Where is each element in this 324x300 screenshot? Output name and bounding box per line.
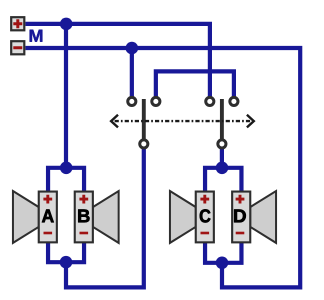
wire riser M- junction to S1 contact 1 bbox=[130, 48, 134, 97]
slide direction dash-dot double arrow bbox=[111, 115, 254, 128]
speaker A label A bbox=[42, 210, 54, 223]
switch S1 contact 1 bbox=[128, 97, 136, 105]
label M bbox=[30, 30, 43, 42]
node junction M+ top bbox=[60, 18, 73, 31]
node junction C/D bottom bbox=[216, 257, 229, 270]
wire M+ junction down to A/B top junction bbox=[64, 24, 68, 168]
wire riser S2 pole to C/D top junction bbox=[220, 149, 224, 168]
speaker A minus bbox=[44, 232, 53, 235]
wire cross link S1 contact 2 to S2 contact 4 bbox=[156, 71, 234, 96]
speaker D label D bbox=[234, 210, 246, 223]
speaker C minus bbox=[201, 232, 210, 235]
speaker A body bbox=[39, 192, 57, 243]
node junction M- bbox=[126, 42, 139, 55]
speaker B label B bbox=[78, 210, 89, 223]
speaker D body bbox=[232, 192, 250, 243]
switch S2 pole contact bbox=[218, 140, 226, 148]
terminal M minus bbox=[11, 41, 24, 54]
wire C/D bottom branch bbox=[205, 242, 241, 263]
speaker C label C bbox=[200, 209, 211, 222]
terminal M plus bbox=[11, 17, 24, 30]
switch S2 pole bar bbox=[220, 99, 224, 142]
speaker D plus bbox=[236, 195, 245, 204]
speaker B plus bbox=[79, 195, 88, 204]
speaker D horn bbox=[250, 191, 276, 243]
wire C/D top branch bbox=[205, 168, 241, 192]
speaker B minus bbox=[80, 232, 89, 235]
switch S1 contact 2 bbox=[152, 97, 160, 105]
wire A/B bottom branch bbox=[48, 242, 84, 262]
speaker A plus bbox=[43, 195, 52, 204]
speaker C plus bbox=[200, 195, 209, 204]
wire M- rail, right side, bottom to C/D junction bbox=[26, 48, 301, 287]
switch S1 pole bar bbox=[142, 99, 146, 142]
wire A/B bottom junction to S1 pole bbox=[66, 149, 144, 288]
switch S2 contact 3 bbox=[206, 97, 214, 105]
speaker D minus bbox=[236, 232, 245, 235]
switch S2 contact 4 bbox=[230, 97, 238, 105]
speaker C horn bbox=[170, 191, 196, 243]
speaker C body bbox=[196, 192, 214, 243]
speaker B body bbox=[75, 192, 93, 243]
node junction A/B bottom bbox=[60, 256, 73, 269]
speaker B horn bbox=[93, 191, 119, 243]
node junction C/D top bbox=[216, 162, 229, 175]
switch S1 pole contact bbox=[140, 140, 148, 148]
wire M+ top rail to S2 contact 3 bbox=[26, 24, 210, 97]
wire A/B top branch bbox=[48, 168, 84, 192]
node junction A/B top bbox=[60, 162, 73, 175]
speaker A horn bbox=[13, 191, 39, 243]
